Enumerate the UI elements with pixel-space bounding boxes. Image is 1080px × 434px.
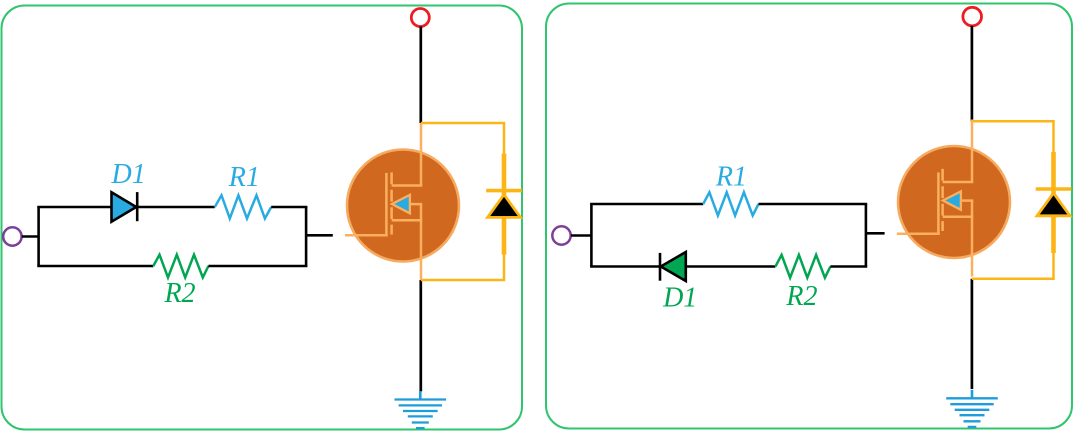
svg-text:R1: R1 xyxy=(228,162,260,193)
svg-text:R2: R2 xyxy=(163,278,195,309)
svg-text:R1: R1 xyxy=(715,162,747,193)
svg-text:D1: D1 xyxy=(110,159,145,190)
svg-text:D1: D1 xyxy=(662,282,697,313)
svg-text:R2: R2 xyxy=(785,281,817,312)
